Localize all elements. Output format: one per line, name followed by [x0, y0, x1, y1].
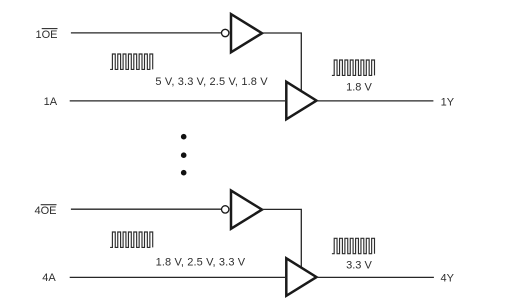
waveform input levels channel 1	[110, 54, 153, 69]
buffer U2	[286, 82, 316, 120]
buffer U4	[286, 258, 316, 296]
svg-text:5 V, 3.3 V, 2.5 V, 1.8 V: 5 V, 3.3 V, 2.5 V, 1.8 V	[155, 76, 268, 88]
label 4OE	[35, 205, 57, 217]
inverter U3 bubble	[222, 206, 229, 213]
svg-text:1Y: 1Y	[441, 96, 455, 108]
svg-text:1.8 V: 1.8 V	[346, 82, 372, 94]
svg-text:4A: 4A	[42, 272, 56, 284]
waveform input levels channel 4	[110, 232, 153, 247]
wire 4A input	[70, 276, 287, 278]
svg-text:1.8 V, 2.5 V, 3.3 V: 1.8 V, 2.5 V, 3.3 V	[156, 256, 246, 268]
label 1OE	[36, 29, 58, 41]
svg-text:3.3 V: 3.3 V	[346, 260, 372, 272]
wire 1Y output	[317, 100, 434, 102]
inverter U1	[231, 14, 262, 52]
wire 4Y output	[317, 276, 434, 278]
wire inverter U1 output to buffer enable	[262, 33, 301, 92]
inverter U3	[231, 191, 262, 229]
ellipsis dots	[181, 134, 187, 176]
waveform output level channel 4	[332, 238, 375, 253]
waveform output level channel 1	[332, 60, 375, 75]
inverter U1 bubble	[222, 29, 229, 36]
svg-text:1A: 1A	[44, 96, 58, 108]
wire 4OE input	[71, 208, 222, 210]
svg-text:4OE: 4OE	[35, 205, 57, 217]
wire 1A input	[70, 100, 287, 102]
wire inverter U3 output to buffer enable	[262, 209, 301, 268]
svg-text:1OE: 1OE	[36, 29, 58, 41]
svg-text:4Y: 4Y	[441, 272, 455, 284]
wire 1OE input	[71, 32, 222, 34]
